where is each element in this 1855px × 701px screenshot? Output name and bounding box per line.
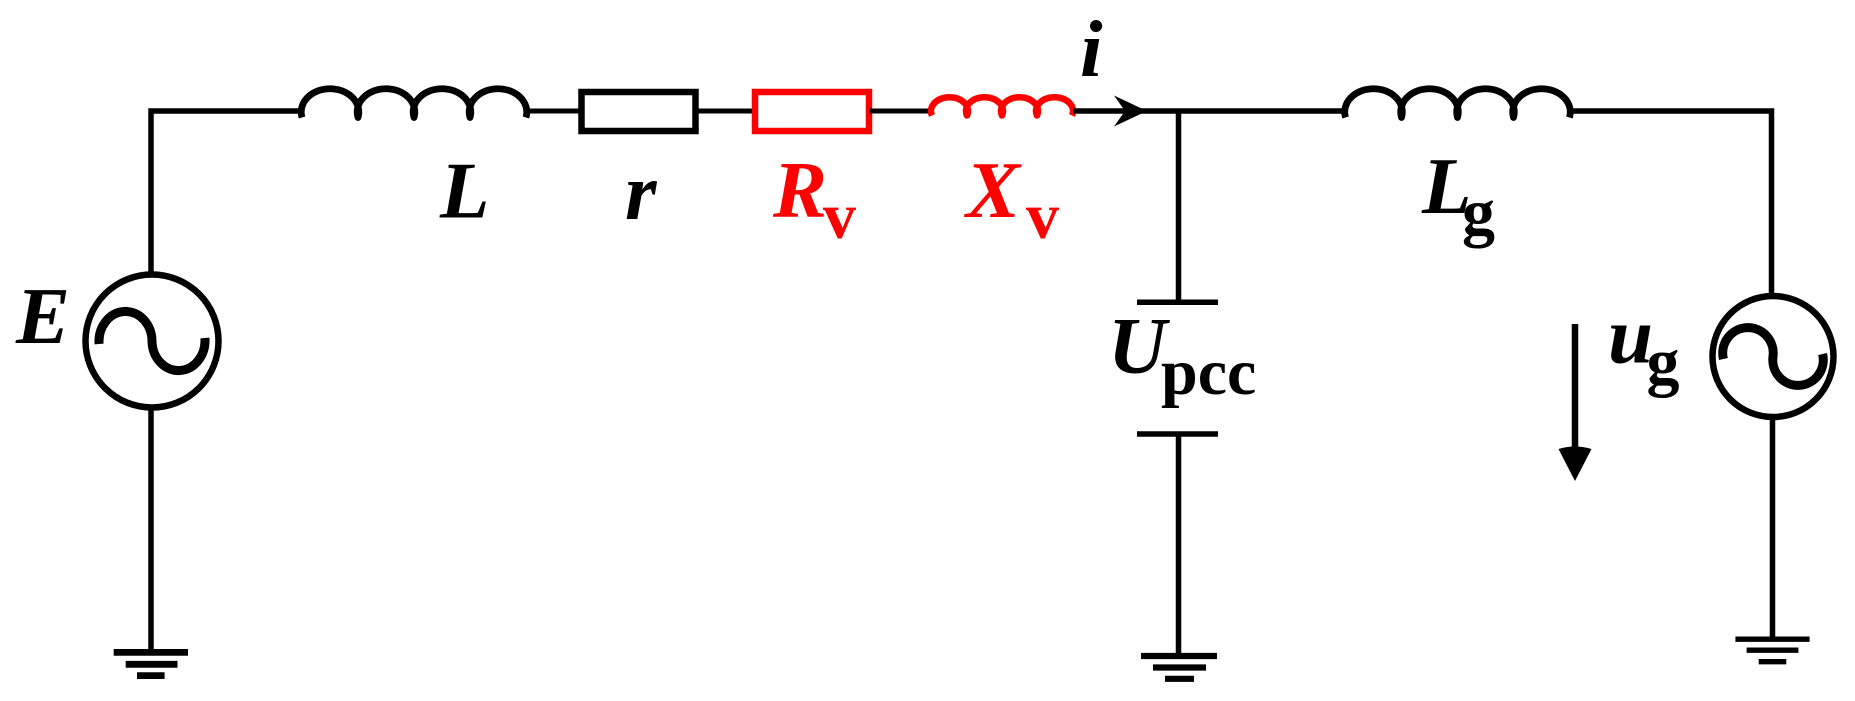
voltage source E circle bbox=[86, 275, 219, 408]
Upcc upper plate bbox=[1137, 300, 1218, 306]
sine symbol inside E bbox=[99, 311, 205, 370]
ground under Upcc bbox=[1141, 656, 1217, 679]
svg-text:L: L bbox=[439, 146, 489, 236]
resistor r bbox=[582, 92, 696, 131]
svg-text:E: E bbox=[15, 271, 70, 361]
grid source ug circle bbox=[1713, 296, 1834, 417]
resistor Rv (red) bbox=[755, 92, 869, 131]
wire: L to r bbox=[525, 109, 582, 114]
wire: left vertical + top rail to inductor L bbox=[151, 111, 300, 274]
svg-text:v: v bbox=[1026, 180, 1059, 253]
svg-text:i: i bbox=[1080, 4, 1103, 94]
wire: ug bottom to ground bbox=[1770, 417, 1776, 637]
svg-text:v: v bbox=[823, 180, 856, 253]
svg-text:g: g bbox=[1462, 176, 1495, 249]
wire: Rv to Xv bbox=[869, 109, 931, 114]
sine symbol inside ug bbox=[1723, 328, 1824, 386]
svg-text:pcc: pcc bbox=[1161, 336, 1256, 409]
wire: lower plate to ground bbox=[1176, 434, 1182, 655]
wire: top rail from Xv through node to Lg and right corner bbox=[1073, 108, 1346, 114]
inductor Lg bbox=[1345, 89, 1571, 118]
ug direction arrow bbox=[1559, 324, 1592, 481]
current arrowhead i bbox=[1114, 96, 1147, 127]
wire: E bottom to ground bbox=[148, 407, 154, 652]
Upcc lower plate bbox=[1137, 431, 1218, 437]
svg-text:R: R bbox=[772, 145, 827, 235]
wire: node down to Upcc plate bbox=[1176, 111, 1182, 300]
ground under E bbox=[114, 652, 188, 675]
wire: r to Rv bbox=[698, 109, 756, 114]
ground under ug bbox=[1735, 639, 1809, 662]
inductor L bbox=[301, 89, 527, 118]
inductor Xv (red virtual reactance) bbox=[931, 97, 1073, 115]
svg-text:r: r bbox=[625, 147, 658, 237]
svg-text:X: X bbox=[963, 145, 1022, 235]
svg-text:g: g bbox=[1647, 326, 1680, 399]
